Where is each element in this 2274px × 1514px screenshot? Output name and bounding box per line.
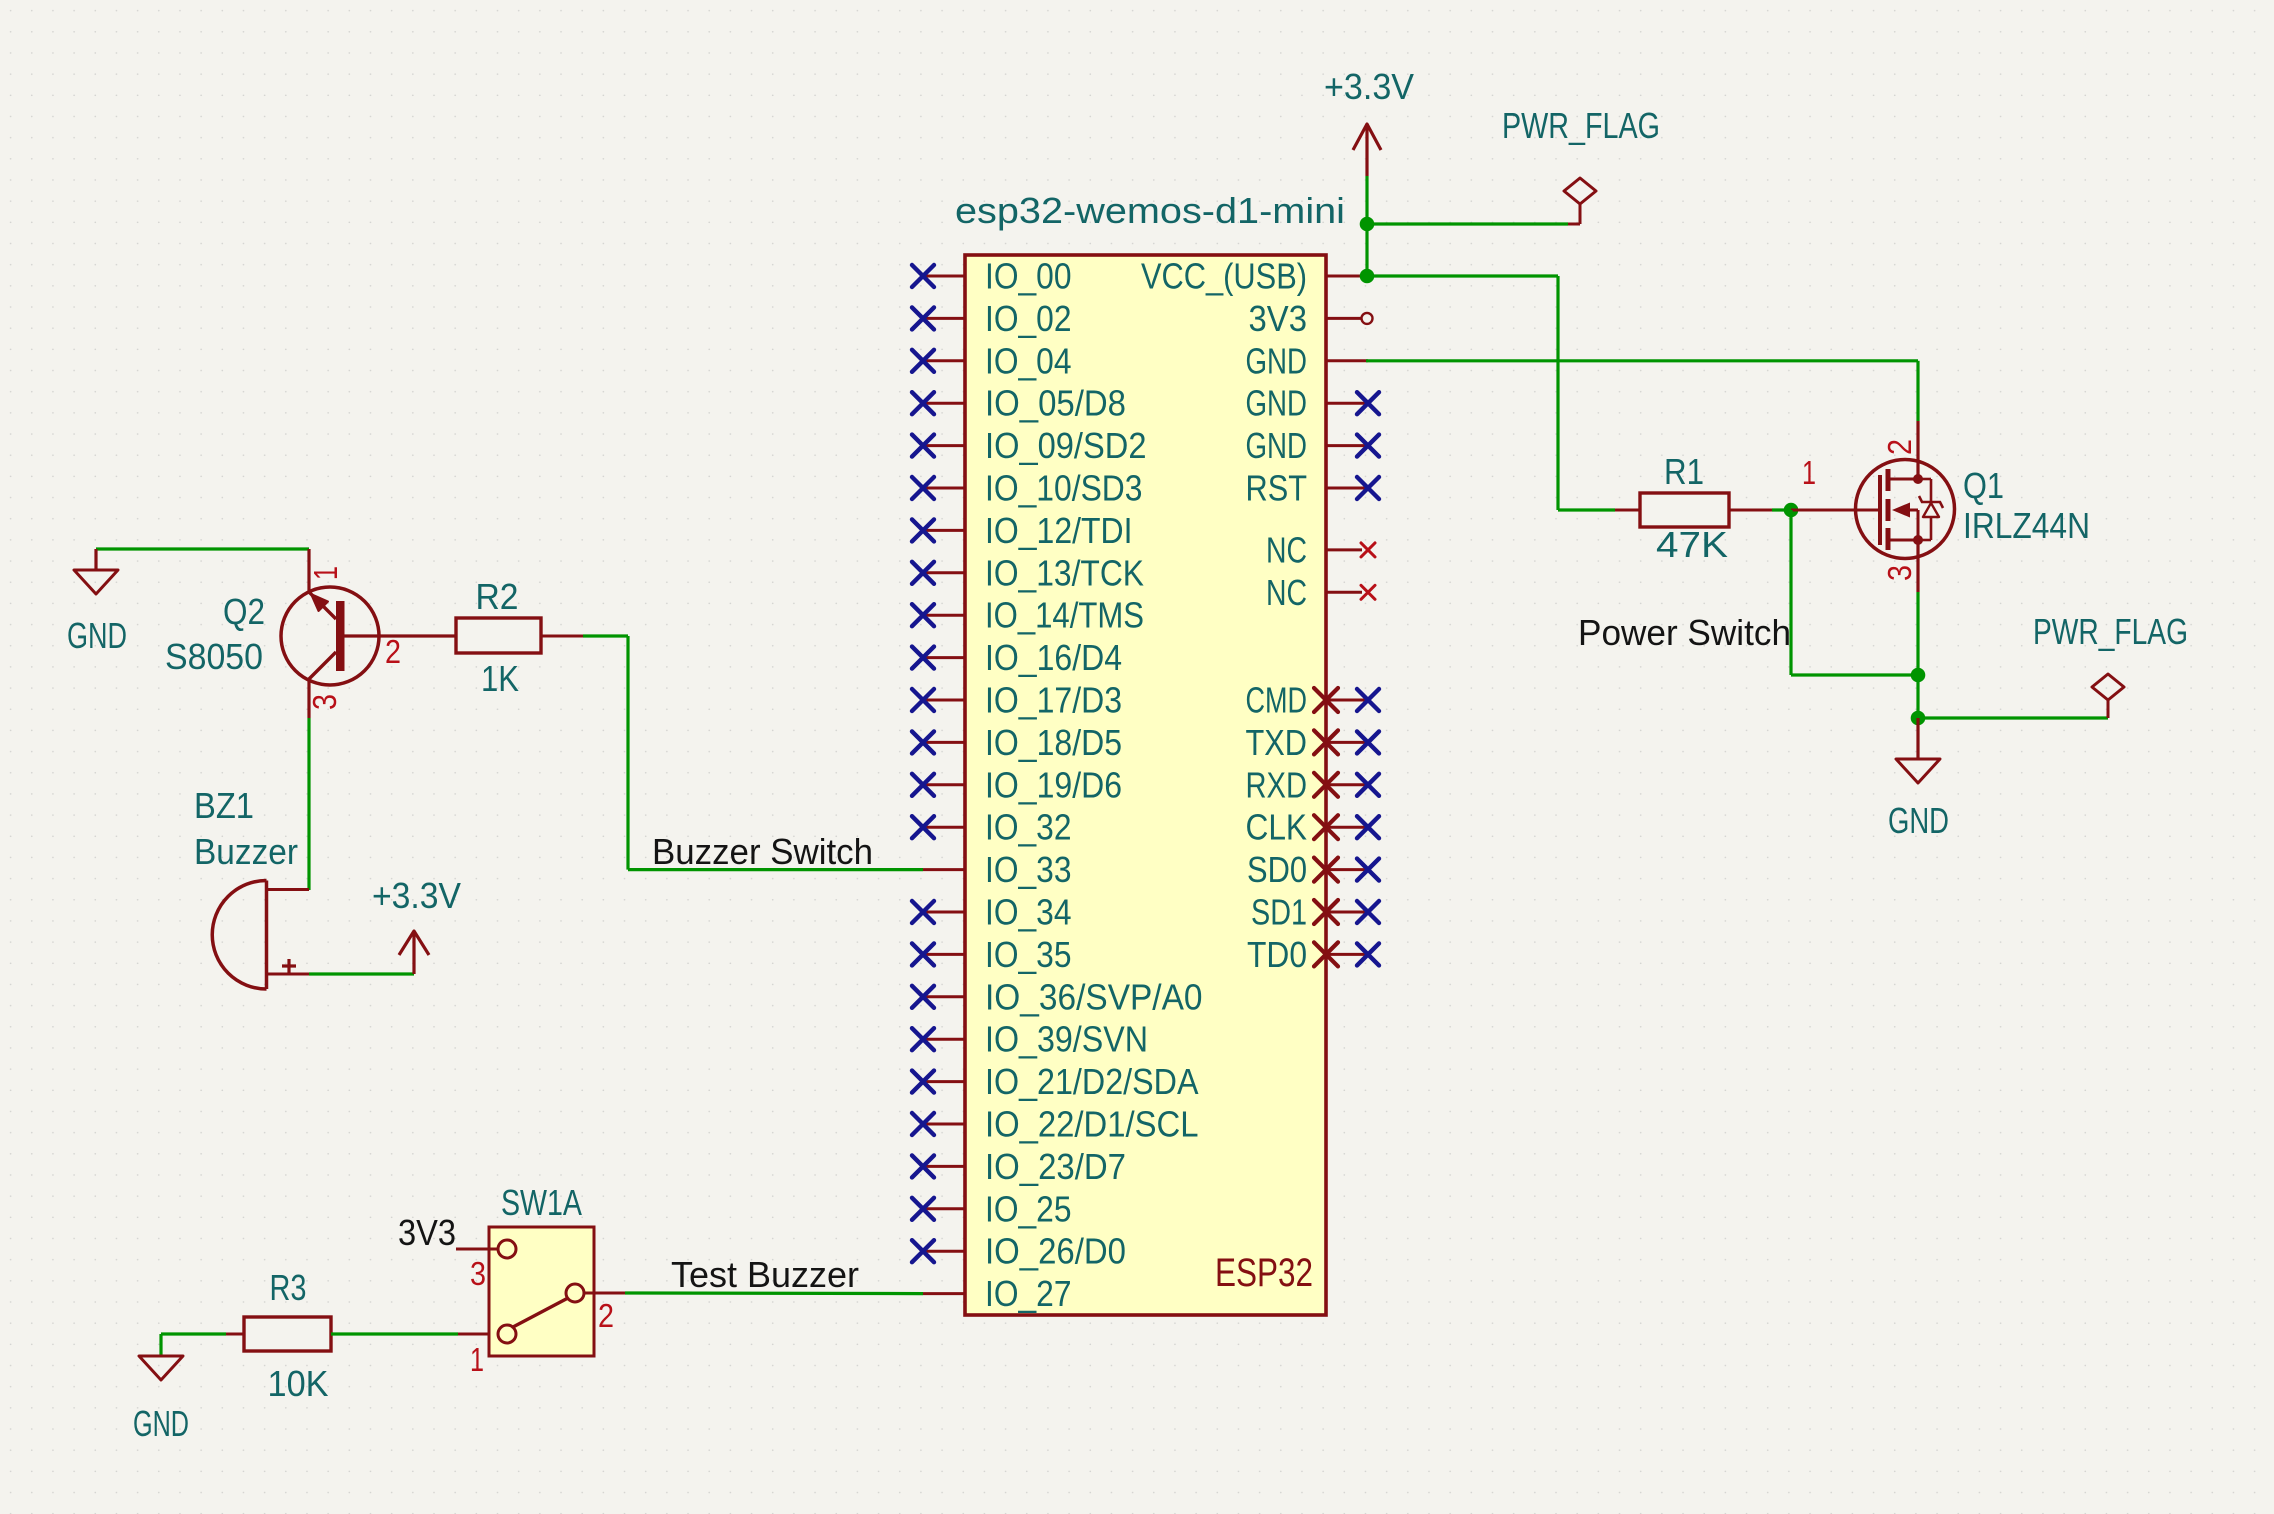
wire buzzer-switch horizontal to IO_33 — [628, 868, 923, 871]
svg-text:47K: 47K — [1656, 524, 1728, 565]
svg-text:IO_35: IO_35 — [985, 934, 1072, 975]
svg-text:IO_39/SVN: IO_39/SVN — [985, 1019, 1148, 1060]
junction at source node — [1911, 668, 1926, 683]
svg-text:S8050: S8050 — [165, 636, 263, 677]
switch SW1A body — [489, 1227, 594, 1356]
buzzer BZ1 symbol — [212, 881, 309, 990]
wire Q2 collector down to buzzer — [307, 718, 310, 890]
wire VCC vertical down to R1 row — [1556, 276, 1559, 510]
GND stub (right) — [1916, 718, 1919, 759]
IC left pin IO_00 — [912, 265, 965, 287]
svg-text:PWR_FLAG: PWR_FLAG — [2033, 611, 2188, 652]
wire Q2 emitter to GND (horizontal) — [96, 547, 309, 550]
IC right pin TXD y742 — [1314, 730, 1379, 754]
svg-text:IO_34: IO_34 — [985, 892, 1072, 933]
svg-text:IO_02: IO_02 — [985, 298, 1072, 339]
resistor R1 body — [1640, 493, 1729, 527]
wire source node down — [1916, 675, 1919, 718]
SW1A pin 3 contact circle — [498, 1240, 516, 1258]
wire Test Buzzer to IO_27 — [625, 1291, 923, 1295]
IC right pin NC y549 — [1326, 543, 1375, 557]
svg-text:BZ1: BZ1 — [194, 785, 254, 826]
IC left pin IO_02 — [912, 307, 965, 329]
wire buzzer plus to +3.3V — [309, 972, 414, 975]
wire GND pin to drain (horizontal) — [1366, 359, 1918, 362]
svg-text:NC: NC — [1266, 529, 1307, 570]
svg-text:Buzzer: Buzzer — [194, 831, 298, 872]
IC left pin IO_35 — [912, 943, 965, 965]
IC left pin IO_05/D8 — [912, 392, 965, 414]
wire drain vertical (green part) — [1916, 361, 1919, 421]
BZ1 plus polarity mark — [282, 959, 296, 973]
IC left pin IO_27 — [923, 1292, 965, 1295]
IC left pin IO_26/D0 — [912, 1240, 965, 1262]
svg-text:2: 2 — [1881, 439, 1918, 455]
IC left pin IO_16/D4 — [912, 647, 965, 669]
wire VCC_(USB) horizontal — [1367, 274, 1558, 277]
svg-text:VCC_(USB): VCC_(USB) — [1141, 256, 1307, 297]
svg-text:IO_33: IO_33 — [985, 849, 1072, 890]
svg-text:3: 3 — [470, 1255, 486, 1292]
ground symbol (right) — [1896, 759, 1940, 783]
IC right pin RST y488 — [1326, 477, 1379, 499]
svg-text:TD0: TD0 — [1247, 934, 1307, 975]
svg-text:Buzzer Switch: Buzzer Switch — [652, 831, 873, 872]
IC left pin IO_09/SD2 — [912, 435, 965, 457]
wire GND vertical (bottom left) — [159, 1334, 162, 1356]
PWR_FLAG symbol (top) — [1568, 204, 1580, 224]
svg-text:Power Switch: Power Switch — [1578, 612, 1791, 653]
transistor Q1 IRLZ44N (N-MOSFET) — [1791, 421, 1955, 592]
svg-text:IO_32: IO_32 — [985, 807, 1072, 848]
svg-text:IO_27: IO_27 — [985, 1273, 1072, 1314]
svg-text:IO_22/D1/SCL: IO_22/D1/SCL — [985, 1104, 1199, 1145]
wire to PWR_FLAG (right) — [1918, 716, 2108, 719]
R3 right lead — [458, 1333, 499, 1336]
IC right pin VCC_(USB) y276 — [1326, 275, 1368, 278]
svg-text:RST: RST — [1246, 468, 1308, 509]
svg-text:GND: GND — [67, 615, 127, 656]
IC left pin IO_23/D7 — [912, 1155, 965, 1177]
IC right pin SD0 y869 — [1314, 858, 1379, 882]
svg-text:3: 3 — [306, 694, 343, 710]
svg-text:+3.3V: +3.3V — [372, 875, 461, 916]
svg-text:GND: GND — [133, 1403, 189, 1444]
svg-text:IRLZ44N: IRLZ44N — [1963, 505, 2090, 546]
wire to PWR_FLAG (top) — [1367, 222, 1568, 225]
IC U1 esp32-wemos-d1-mini body — [965, 255, 1326, 1315]
svg-text:IO_19/D6: IO_19/D6 — [985, 764, 1122, 805]
svg-text:IO_18/D5: IO_18/D5 — [985, 722, 1122, 763]
SW1A pin 3 stub — [456, 1248, 498, 1251]
wire source down to junction — [1916, 592, 1919, 675]
svg-text:IO_00: IO_00 — [985, 256, 1072, 297]
svg-text:3V3: 3V3 — [398, 1212, 456, 1253]
IC right pin RXD y784 — [1314, 773, 1379, 797]
IC right pin GND y445 — [1326, 435, 1379, 457]
IC left pin IO_25 — [912, 1198, 965, 1220]
SW1A pin 1 contact circle — [498, 1325, 516, 1343]
wire gate node down (power switch net) — [1789, 510, 1792, 675]
IC left pin IO_33 — [923, 868, 965, 871]
svg-text:2: 2 — [385, 633, 401, 670]
svg-text:IO_14/TMS: IO_14/TMS — [985, 595, 1144, 636]
IC left pin IO_21/D2/SDA — [912, 1071, 965, 1093]
PWR_FLAG symbol (right) — [2107, 700, 2110, 718]
svg-text:R2: R2 — [476, 576, 519, 617]
svg-text:PWR_FLAG: PWR_FLAG — [1502, 105, 1660, 146]
wire buzzer-switch vertical — [626, 636, 629, 870]
svg-text:R1: R1 — [1664, 451, 1704, 492]
wire power switch horizontal — [1791, 673, 1918, 676]
svg-text:Test Buzzer: Test Buzzer — [671, 1254, 859, 1295]
wire +3.3V down to VCC pin — [1365, 224, 1368, 276]
IC right pin SD1 y912 — [1314, 900, 1379, 924]
svg-text:+3.3V: +3.3V — [1324, 66, 1414, 107]
resistor R3 body — [244, 1317, 331, 1351]
IC left pin IO_39/SVN — [912, 1028, 965, 1050]
svg-text:SW1A: SW1A — [501, 1182, 582, 1223]
IC left pin IO_14/TMS — [912, 604, 965, 626]
IC right pin NC y592 — [1326, 585, 1375, 599]
GND stub (left upper) — [94, 549, 97, 570]
svg-text:IO_23/D7: IO_23/D7 — [985, 1146, 1126, 1187]
IC right pin CLK y827 — [1314, 815, 1379, 839]
svg-text:NC: NC — [1266, 572, 1307, 613]
SW1A pin 2 contact circle — [566, 1284, 584, 1302]
IC left pin IO_32 — [912, 816, 965, 838]
wire into R1 left — [1558, 508, 1615, 511]
svg-text:CMD: CMD — [1246, 680, 1308, 721]
svg-text:IO_10/SD3: IO_10/SD3 — [985, 468, 1143, 509]
junction at +3.3V / PWR_FLAG tap — [1360, 217, 1375, 232]
IC left pin IO_12/TDI — [912, 519, 965, 541]
IC left pin IO_18/D5 — [912, 731, 965, 753]
transistor Q2 S8050 (BJT) — [281, 549, 456, 718]
R1 right lead — [1729, 509, 1772, 512]
IC right pin 3V3 y318 — [1326, 313, 1373, 324]
IC left pin IO_13/TCK — [912, 562, 965, 584]
svg-text:IO_17/D3: IO_17/D3 — [985, 680, 1122, 721]
wire R2 to corner — [583, 634, 628, 637]
svg-text:esp32-wemos-d1-mini: esp32-wemos-d1-mini — [955, 190, 1345, 231]
IC right pin GND y403 — [1326, 392, 1379, 414]
IC left pin IO_17/D3 — [912, 689, 965, 711]
svg-text:IO_16/D4: IO_16/D4 — [985, 637, 1122, 678]
svg-text:IO_25: IO_25 — [985, 1188, 1072, 1229]
wire R1 to gate junction — [1772, 508, 1798, 511]
IC left pin IO_36/SVP/A0 — [912, 986, 965, 1008]
svg-text:10K: 10K — [268, 1363, 329, 1404]
svg-text:1: 1 — [1802, 454, 1816, 491]
IC left pin IO_04 — [912, 350, 965, 372]
svg-text:1: 1 — [470, 1341, 484, 1378]
svg-text:GND: GND — [1888, 800, 1949, 841]
junction at VCC_(USB) pin — [1360, 269, 1375, 284]
svg-text:IO_21/D2/SDA: IO_21/D2/SDA — [985, 1061, 1199, 1102]
svg-text:1: 1 — [307, 566, 344, 580]
IC left pin IO_22/D1/SCL — [912, 1113, 965, 1135]
svg-text:IO_04: IO_04 — [985, 340, 1072, 381]
IC right pin TD0 y954 — [1314, 942, 1379, 966]
svg-text:GND: GND — [1246, 425, 1308, 466]
svg-text:IO_13/TCK: IO_13/TCK — [985, 552, 1144, 593]
svg-text:IO_05/D8: IO_05/D8 — [985, 383, 1126, 424]
svg-text:GND: GND — [1246, 383, 1308, 424]
junction at Q1 gate node — [1784, 503, 1799, 518]
junction at GND node (right) — [1911, 711, 1926, 726]
ground symbol (left upper) — [74, 570, 118, 594]
SW1A lever — [513, 1298, 568, 1327]
svg-text:SD0: SD0 — [1247, 849, 1307, 890]
IC left pin IO_34 — [912, 901, 965, 923]
svg-text:RXD: RXD — [1246, 764, 1308, 805]
svg-text:SD1: SD1 — [1251, 892, 1307, 933]
resistor R2 body — [456, 618, 541, 653]
svg-text:1K: 1K — [481, 658, 519, 699]
svg-text:IO_26/D0: IO_26/D0 — [985, 1231, 1126, 1272]
svg-text:CLK: CLK — [1246, 807, 1308, 848]
SW1A pin 2 stub — [584, 1292, 625, 1295]
svg-text:2: 2 — [598, 1297, 614, 1334]
svg-text:3: 3 — [1881, 565, 1918, 581]
svg-text:TXD: TXD — [1246, 722, 1308, 763]
svg-text:IO_09/SD2: IO_09/SD2 — [985, 425, 1147, 466]
IC left pin IO_10/SD3 — [912, 477, 965, 499]
svg-text:ESP32: ESP32 — [1215, 1251, 1313, 1295]
power symbol +3.3V (left) — [399, 931, 429, 974]
svg-text:Q2: Q2 — [223, 591, 265, 632]
wire R3 to SW1A pin 1 — [331, 1332, 458, 1335]
svg-text:IO_36/SVP/A0: IO_36/SVP/A0 — [985, 976, 1203, 1017]
svg-text:3V3: 3V3 — [1249, 298, 1308, 339]
svg-text:GND: GND — [1246, 340, 1308, 381]
IC right pin GND y360 — [1326, 359, 1368, 362]
svg-text:IO_12/TDI: IO_12/TDI — [985, 510, 1133, 551]
R1 left lead — [1615, 509, 1640, 512]
svg-text:R3: R3 — [270, 1267, 307, 1308]
R3 left lead — [226, 1333, 244, 1336]
R2 right lead — [541, 635, 583, 638]
power symbol +3.3V (top) — [1353, 124, 1381, 176]
IC right pin CMD y700 — [1314, 688, 1379, 712]
ground symbol (bottom left) — [139, 1356, 183, 1380]
wire +3.3V stem — [1365, 176, 1368, 225]
IC left pin IO_19/D6 — [912, 774, 965, 796]
wire R3 to GND corner — [161, 1332, 226, 1335]
svg-text:Q1: Q1 — [1963, 465, 2004, 506]
